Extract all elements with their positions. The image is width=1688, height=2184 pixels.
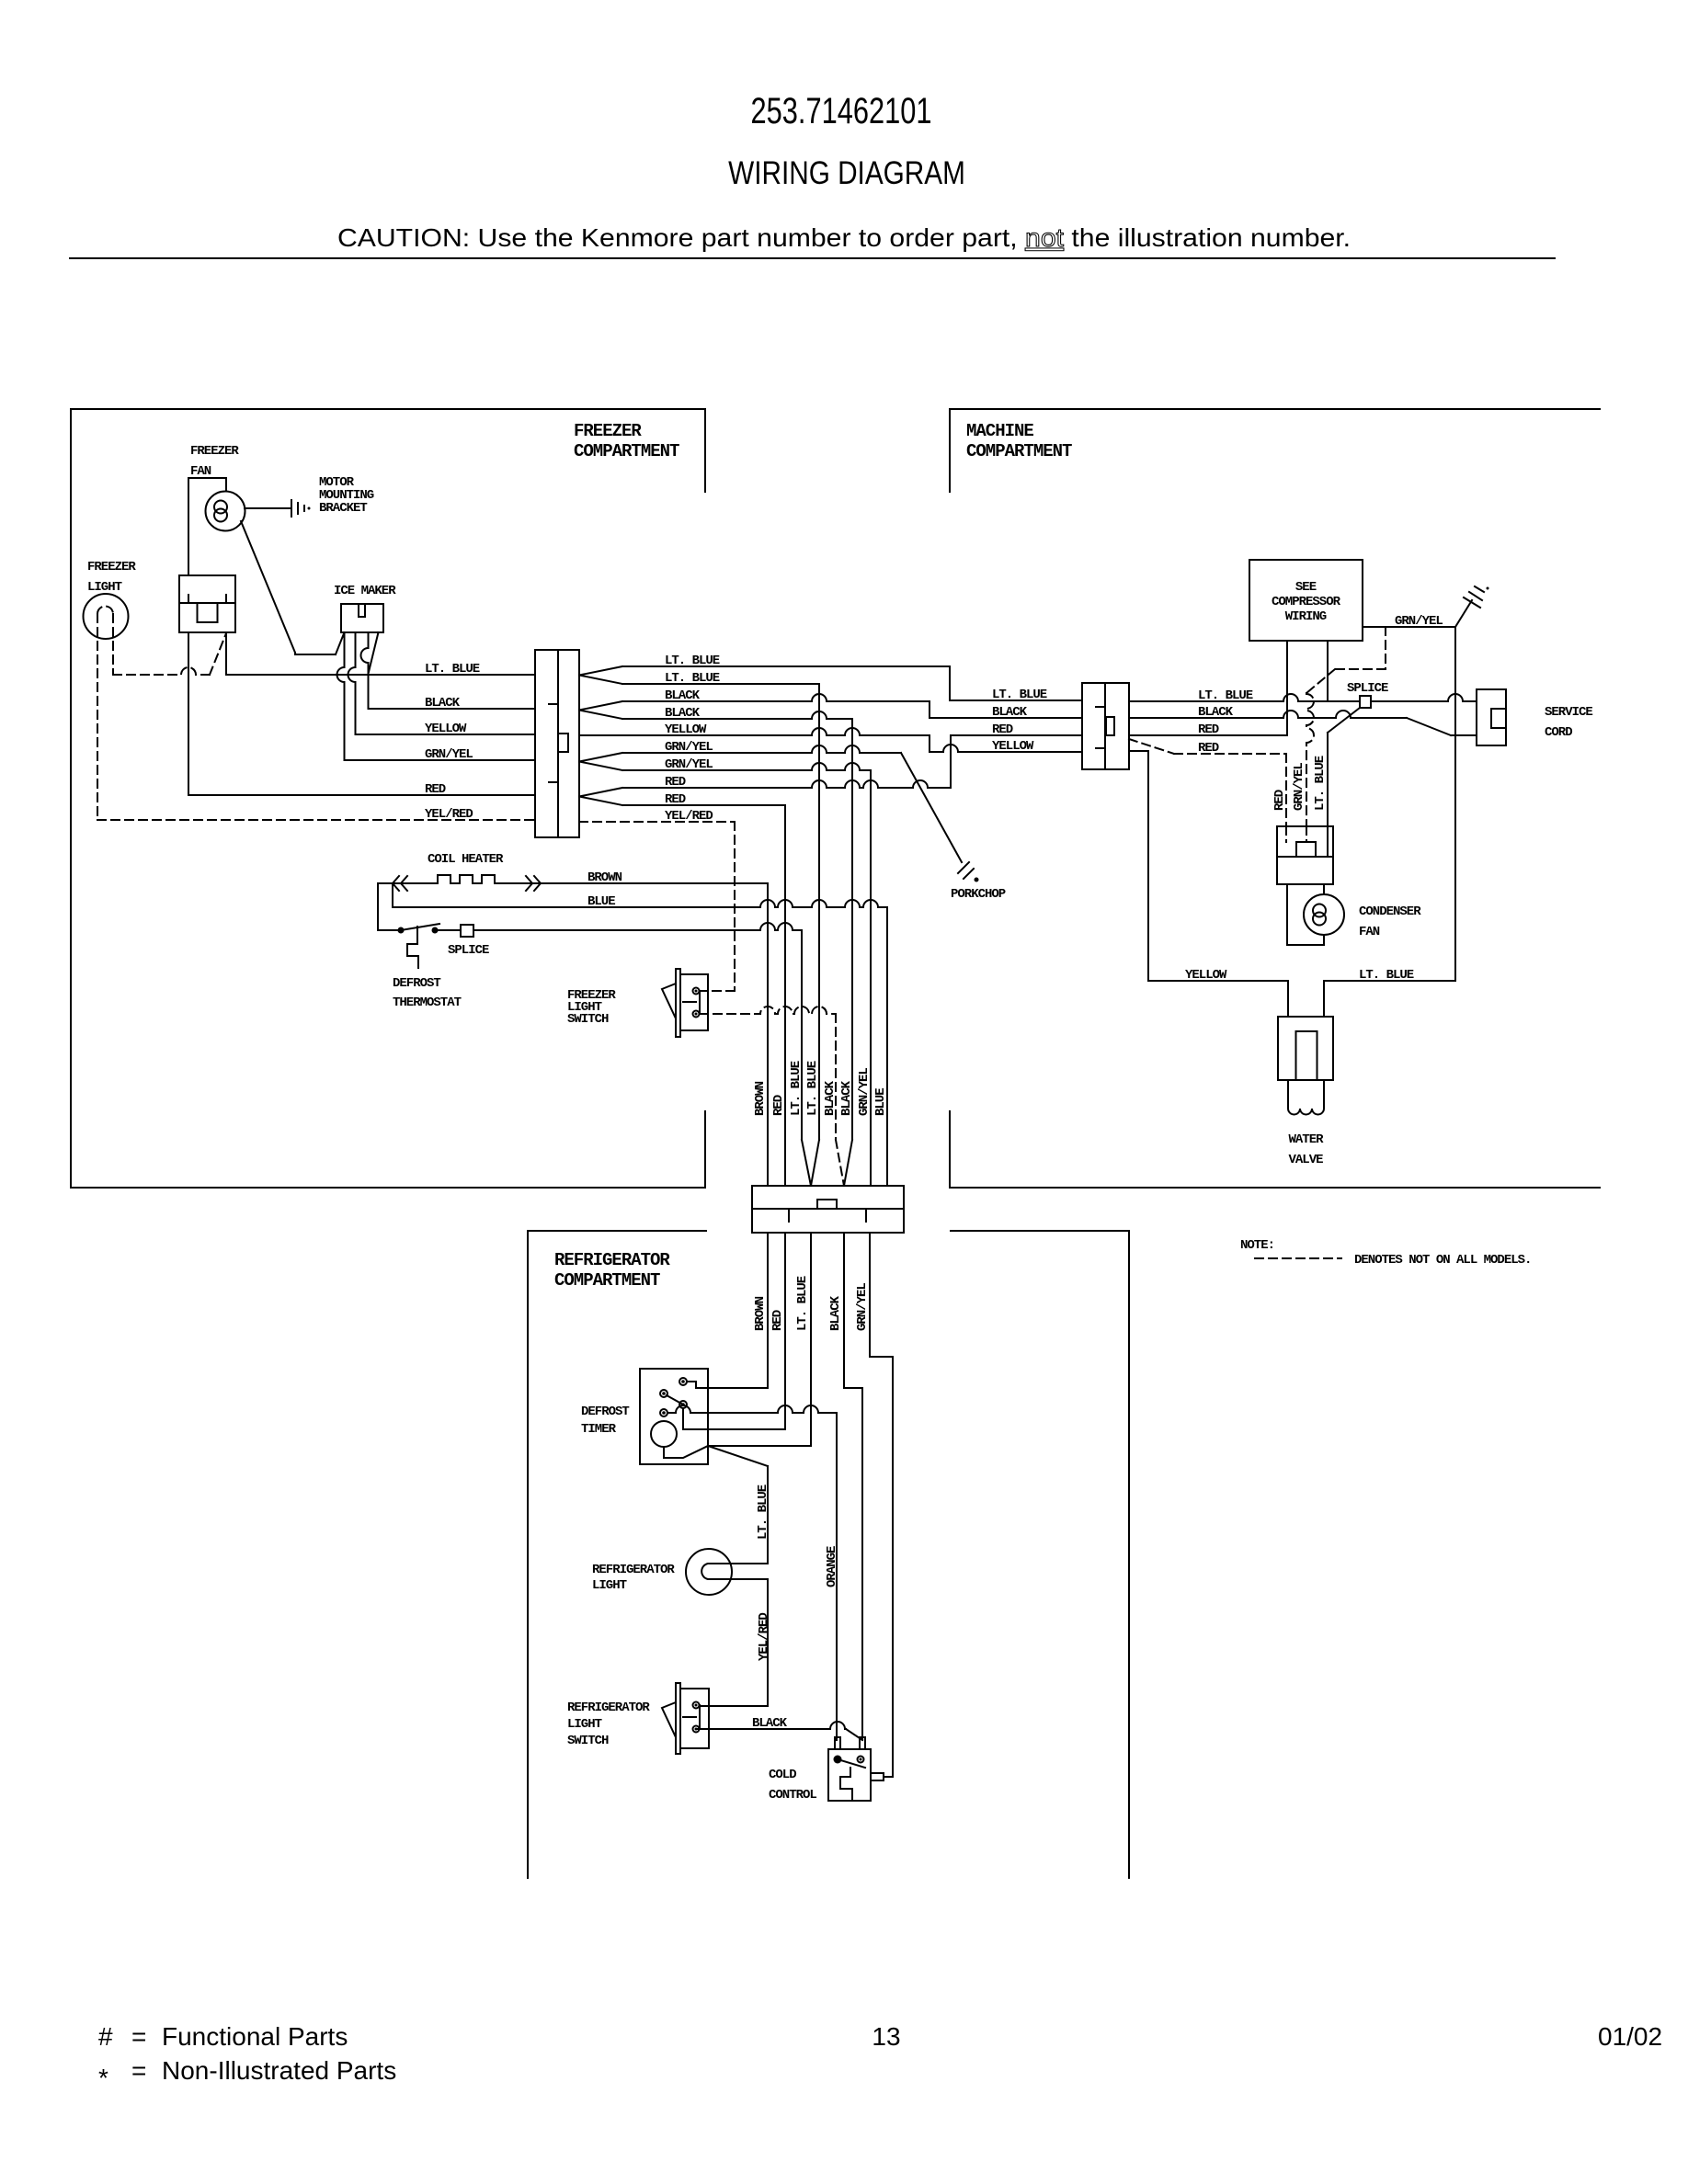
wire GRN/YEL run 1 to porkchop xyxy=(622,745,901,753)
relay box divider xyxy=(1277,856,1333,858)
svg-text:SPLICE: SPLICE xyxy=(1347,681,1388,696)
condenser fan left loop xyxy=(1286,884,1288,945)
porkchop ground symbol xyxy=(958,862,969,873)
svg-text:SPLICE: SPLICE xyxy=(448,943,489,958)
wire thermostat line xyxy=(378,929,397,931)
refrigerator light switch flag xyxy=(662,1702,676,1737)
water valve box xyxy=(1278,1017,1333,1080)
relay box notch xyxy=(1296,842,1316,857)
defrost thermostat contact dots xyxy=(398,927,405,934)
svg-text:FREEZER: FREEZER xyxy=(190,444,239,459)
freezer connector tick 1 xyxy=(549,703,558,705)
svg-text:=: = xyxy=(131,2056,146,2085)
svg-text:COMPARTMENT: COMPARTMENT xyxy=(574,441,679,461)
machine compartment border top xyxy=(950,409,1600,492)
svg-text:253.71462101: 253.71462101 xyxy=(751,90,932,131)
svg-text:GRN/YEL: GRN/YEL xyxy=(857,1068,872,1116)
svg-text:RED: RED xyxy=(992,722,1013,737)
wire fan bracket right to LT.BLUE xyxy=(225,632,227,675)
ice maker pin4 diagonal to LT.BLUE xyxy=(369,632,379,672)
wire YEL/RED to switch xyxy=(767,1579,769,1706)
ice maker notch slot xyxy=(359,604,365,617)
svg-text:GRN/YEL: GRN/YEL xyxy=(1292,763,1306,811)
wire RED run 1 xyxy=(622,780,951,788)
svg-text:NOTE:: NOTE: xyxy=(1240,1238,1274,1253)
svg-text:ORANGE: ORANGE xyxy=(825,1546,839,1587)
defrost timer box xyxy=(640,1369,708,1464)
svg-text:BLUE: BLUE xyxy=(873,1088,888,1116)
refrigerator light switch dots xyxy=(693,1702,700,1709)
svg-text:BLACK: BLACK xyxy=(665,706,701,721)
svg-text:#: # xyxy=(98,2022,113,2051)
svg-text:LIGHT: LIGHT xyxy=(567,1717,602,1732)
defrost timer terminal T4 xyxy=(660,1409,667,1416)
wire BLACK run 2 (down) xyxy=(622,711,852,719)
cold control switch arm xyxy=(838,1759,865,1768)
svg-text:GRN/YEL: GRN/YEL xyxy=(1395,614,1443,629)
condenser fan circle xyxy=(1304,894,1344,935)
defrost timer terminal T1 xyxy=(679,1378,687,1385)
svg-text:01/02: 01/02 xyxy=(1598,2022,1662,2051)
wire GRN/YEL dashed alternate xyxy=(1385,627,1386,669)
svg-text:YEL/RED: YEL/RED xyxy=(665,809,713,824)
svg-text:RED: RED xyxy=(1198,741,1219,756)
freezer connector divider xyxy=(557,650,559,837)
svg-text:BLACK: BLACK xyxy=(992,705,1028,720)
svg-text:LT. BLUE: LT. BLUE xyxy=(665,671,720,686)
machine connector box xyxy=(1082,683,1129,769)
wire GRN/YEL below connector xyxy=(869,1233,871,1357)
svg-text:BROWN: BROWN xyxy=(753,1081,768,1116)
svg-text:SWITCH: SWITCH xyxy=(567,1734,609,1748)
svg-text:LT. BLUE: LT. BLUE xyxy=(795,1276,810,1331)
svg-text:CORD: CORD xyxy=(1545,725,1572,740)
svg-text:CONTROL: CONTROL xyxy=(769,1788,816,1803)
wire freezer light switch lower dashed xyxy=(700,1007,836,1014)
wire T4 to ORANGE xyxy=(667,1405,837,1413)
svg-text:LIGHT: LIGHT xyxy=(592,1578,627,1593)
refrigerator connector box xyxy=(752,1186,904,1233)
cold control bellows xyxy=(840,1768,852,1799)
svg-text:YELLOW: YELLOW xyxy=(992,739,1034,754)
freezer fan feed loop xyxy=(188,478,226,575)
wire freezer light left dashed to YEL/RED xyxy=(97,614,98,820)
svg-text:LT. BLUE: LT. BLUE xyxy=(789,1061,804,1116)
svg-text:GRN/YEL: GRN/YEL xyxy=(665,740,713,755)
svg-text:BLACK: BLACK xyxy=(828,1295,843,1331)
svg-text:BLACK: BLACK xyxy=(425,696,461,711)
service cord notch xyxy=(1491,709,1506,728)
svg-text:BLACK: BLACK xyxy=(839,1080,854,1116)
service cord box xyxy=(1477,689,1506,745)
svg-text:SWITCH: SWITCH xyxy=(567,1012,609,1027)
svg-text:REFRIGERATOR: REFRIGERATOR xyxy=(567,1701,650,1715)
water valve leads below xyxy=(1287,1080,1289,1103)
svg-text:FAN: FAN xyxy=(1359,925,1380,939)
wire freezer light dashed to fan bracket xyxy=(113,667,210,675)
svg-text:Non-Illustrated Parts: Non-Illustrated Parts xyxy=(162,2056,396,2085)
svg-text:BLACK: BLACK xyxy=(665,688,701,703)
svg-text:13: 13 xyxy=(872,2022,900,2051)
svg-text:CONDENSER: CONDENSER xyxy=(1359,904,1421,919)
svg-text:CAUTION: Use the Kenmore part: CAUTION: Use the Kenmore part number to … xyxy=(337,224,1351,253)
fanout BLACK pair xyxy=(579,701,622,719)
wire RED run 2 (down) xyxy=(622,804,785,806)
taper LT.BLUE pair xyxy=(802,1140,819,1186)
refrigerator connector notch xyxy=(817,1200,837,1209)
wire GRN/YEL freezer-left xyxy=(345,759,536,761)
svg-text:GRN/YEL: GRN/YEL xyxy=(425,747,473,762)
chassis ground diagonal xyxy=(1455,600,1472,627)
condenser fan leads xyxy=(1323,884,1325,894)
note dashes xyxy=(1255,1257,1341,1259)
freezer connector box xyxy=(535,650,579,837)
machine connector tick 2 xyxy=(1096,747,1105,749)
refrigerator connector pin ticks xyxy=(788,1209,790,1222)
svg-text:*: * xyxy=(98,2064,108,2092)
wire fan to ice maker diagonal xyxy=(241,521,295,653)
svg-text:BLACK: BLACK xyxy=(752,1716,788,1731)
wire BLACK freezer-left xyxy=(369,708,536,710)
freezer connector notch rect xyxy=(558,734,568,752)
splice square machine xyxy=(1360,696,1371,708)
svg-text:LT. BLUE: LT. BLUE xyxy=(992,688,1047,702)
freezer fan bracket connector box xyxy=(179,575,235,632)
svg-text:TIMER: TIMER xyxy=(581,1422,617,1437)
svg-text:DENOTES NOT ON ALL MODELS.: DENOTES NOT ON ALL MODELS. xyxy=(1354,1253,1531,1268)
freezer fan bracket divider xyxy=(179,602,235,604)
svg-text:MACHINE: MACHINE xyxy=(966,421,1033,441)
svg-text:COLD: COLD xyxy=(769,1768,796,1782)
ice maker pin3 wire to BLACK xyxy=(361,632,369,709)
wire YELLOW run xyxy=(579,728,930,735)
svg-text:BLUE: BLUE xyxy=(587,894,615,909)
wire BLUE from heater xyxy=(392,883,393,907)
svg-text:LT. BLUE: LT. BLUE xyxy=(756,1484,770,1540)
wire YEL/RED dashed run xyxy=(579,821,735,823)
wire RED to compressor xyxy=(1129,734,1287,736)
cold control dots xyxy=(834,1756,842,1764)
ice maker pin2 wire to YELLOW xyxy=(348,632,356,734)
svg-text:GRN/YEL: GRN/YEL xyxy=(665,757,713,772)
compressor right lead xyxy=(1327,641,1329,701)
cold control box xyxy=(828,1749,871,1801)
coil heater element xyxy=(378,875,542,883)
wire LT. BLUE run 2 (down) xyxy=(622,683,819,685)
svg-text:FAN: FAN xyxy=(190,464,211,479)
svg-text:WATER: WATER xyxy=(1288,1132,1324,1147)
see compressor wiring box xyxy=(1249,560,1363,641)
svg-text:LT. BLUE: LT. BLUE xyxy=(425,662,480,677)
svg-text:RED: RED xyxy=(770,1310,785,1331)
freezer compartment bottom border xyxy=(71,1111,705,1188)
svg-text:THERMOSTAT: THERMOSTAT xyxy=(393,995,462,1010)
machine connector divider xyxy=(1104,683,1106,769)
svg-text:=: = xyxy=(131,2022,146,2051)
motor ground wire xyxy=(245,507,291,509)
svg-text:LT. BLUE: LT. BLUE xyxy=(665,654,720,668)
svg-text:WIRING: WIRING xyxy=(1285,609,1327,624)
freezer connector tick 2 xyxy=(549,781,558,783)
refrigerator compartment border right xyxy=(951,1231,1129,1878)
svg-text:YEL/RED: YEL/RED xyxy=(757,1613,771,1661)
refrigerator light filament xyxy=(701,1564,768,1579)
svg-text:ICE MAKER: ICE MAKER xyxy=(334,584,396,598)
refrigerator compartment border left xyxy=(528,1231,706,1878)
relay leads inside xyxy=(1285,826,1287,842)
svg-text:WIRING DIAGRAM: WIRING DIAGRAM xyxy=(728,155,965,191)
wire LT. BLUE run 1 xyxy=(622,665,950,667)
wire BROWN below connector xyxy=(767,1233,769,1388)
wire LT. BLUE to water valve xyxy=(1324,980,1455,982)
refrigerator light switch blade xyxy=(676,1683,680,1754)
machine compartment border bottom xyxy=(950,1111,1600,1188)
svg-text:BRACKET: BRACKET xyxy=(319,501,367,516)
svg-text:DEFROST: DEFROST xyxy=(393,976,440,991)
wire RED dashed to relay xyxy=(1129,739,1174,754)
svg-text:COMPARTMENT: COMPARTMENT xyxy=(966,441,1072,461)
freezer fan motor M1 circle xyxy=(206,492,245,531)
compressor left lead xyxy=(1286,641,1288,735)
water valve inner channel xyxy=(1296,1031,1317,1080)
wire LT. BLUE to splice and service cord xyxy=(1129,694,1360,701)
svg-text:COMPRESSOR: COMPRESSOR xyxy=(1272,595,1341,609)
svg-text:FREEZER: FREEZER xyxy=(574,421,642,441)
freezer light switch dots xyxy=(693,988,700,995)
cold control stub xyxy=(871,1773,884,1780)
svg-text:LT. BLUE: LT. BLUE xyxy=(1198,688,1253,703)
wire node at x321 xyxy=(295,653,336,654)
defrost thermostat switch arm xyxy=(401,924,439,930)
svg-text:Functional Parts: Functional Parts xyxy=(162,2022,348,2051)
wire thermostat to splice xyxy=(438,929,461,931)
freezer fan bracket notch xyxy=(198,603,218,622)
wire BLACK switch to cold control xyxy=(696,1722,846,1729)
wire YEL/RED freezer-left dashed xyxy=(97,819,535,821)
wire BLACK below connector xyxy=(843,1233,845,1388)
wire GRN/YEL run 2 (down) xyxy=(622,763,871,770)
wire LT. BLUE from splice xyxy=(473,923,802,930)
wire GRN/YEL service vertical xyxy=(1454,627,1456,981)
water valve coil xyxy=(1288,1103,1324,1115)
refrigerator connector divider xyxy=(752,1208,904,1210)
svg-text:RED: RED xyxy=(425,782,446,797)
svg-text:FREEZER: FREEZER xyxy=(87,560,136,574)
wire freezer light right dashed xyxy=(112,614,114,675)
coil heater chevrons left xyxy=(393,876,407,891)
svg-text:REFRIGERATOR: REFRIGERATOR xyxy=(592,1563,675,1577)
wire LT.BLUE splice to relay xyxy=(1328,708,1360,733)
wire BLACK run 1 xyxy=(622,694,930,701)
cold control pin right xyxy=(860,1737,865,1749)
machine connector notch xyxy=(1106,717,1114,735)
svg-text:LT. BLUE: LT. BLUE xyxy=(1313,756,1328,811)
freezer fan bracket pin ticks xyxy=(188,595,189,603)
svg-text:YEL/RED: YEL/RED xyxy=(425,807,473,822)
refrigerator light switch contact xyxy=(683,1716,696,1718)
wire icemaker pin1 diagonal xyxy=(336,632,345,654)
taper BLACK pair dashed-solid xyxy=(836,1140,844,1186)
ice maker pin1 wire to GRN/YEL xyxy=(337,632,345,760)
wire BROWN from heater xyxy=(542,882,768,884)
defrost timer switch arm xyxy=(667,1395,683,1405)
svg-text:REFRIGERATOR: REFRIGERATOR xyxy=(554,1250,670,1270)
defrost timer terminal T3 xyxy=(679,1401,687,1408)
freezer light switch contact xyxy=(683,1001,696,1003)
fanout GRN/YEL pair xyxy=(579,753,622,770)
svg-text:BLACK: BLACK xyxy=(823,1080,838,1116)
svg-text:LT. BLUE: LT. BLUE xyxy=(1359,968,1414,983)
svg-text:RED: RED xyxy=(1198,722,1219,737)
svg-text:RED: RED xyxy=(665,775,686,790)
svg-text:SERVICE: SERVICE xyxy=(1545,705,1592,720)
freezer light switch box xyxy=(680,974,708,1030)
freezer compartment border xyxy=(71,409,705,1188)
wire LT.BLUE light junction xyxy=(708,1446,768,1466)
freezer light switch blade xyxy=(676,969,680,1037)
freezer light switch flag xyxy=(662,984,676,1018)
defrost timer motor circle xyxy=(651,1421,677,1447)
wire YELLOW freezer-left xyxy=(356,734,536,735)
refrigerator light circle xyxy=(686,1549,732,1595)
wire BLACK to service cord xyxy=(1129,711,1407,718)
svg-text:BLACK: BLACK xyxy=(1198,705,1234,720)
svg-text:LIGHT: LIGHT xyxy=(87,580,122,595)
svg-text:VALVE: VALVE xyxy=(1288,1153,1323,1167)
svg-text:RED: RED xyxy=(665,792,686,807)
freezer light circle xyxy=(84,594,129,639)
svg-text:YELLOW: YELLOW xyxy=(1185,968,1227,983)
defrost thermostat stem xyxy=(407,927,418,968)
defrost timer terminal T2 xyxy=(660,1390,667,1397)
motor ground symbol xyxy=(291,500,292,517)
wire RED below connector xyxy=(784,1233,786,1429)
svg-text:SEE: SEE xyxy=(1295,580,1317,595)
wire GRN/YEL to ground xyxy=(1363,626,1455,628)
wire stub to GRN/YEL xyxy=(884,1776,893,1778)
freezer fan motor coil xyxy=(214,501,227,514)
svg-text:LT. BLUE: LT. BLUE xyxy=(805,1061,820,1116)
svg-text:COMPARTMENT: COMPARTMENT xyxy=(554,1270,660,1291)
cold control pin left xyxy=(835,1737,840,1749)
coil heater left riser xyxy=(377,883,379,930)
svg-text:RED: RED xyxy=(1272,790,1287,811)
chassis ground symbol xyxy=(1464,597,1480,608)
svg-text:YELLOW: YELLOW xyxy=(665,722,707,737)
svg-text:GRN/YEL: GRN/YEL xyxy=(855,1283,870,1331)
relay box xyxy=(1277,826,1333,884)
ice maker box xyxy=(341,604,383,632)
machine connector tick 1 xyxy=(1096,706,1105,708)
svg-text:PORKCHOP: PORKCHOP xyxy=(951,887,1006,902)
fanout LT. BLUE pair xyxy=(579,666,622,684)
svg-text:RED: RED xyxy=(771,1095,786,1116)
splice square freezer xyxy=(461,925,473,937)
defrost timer motor stem xyxy=(664,1446,708,1458)
wire YELLOW to water valve xyxy=(1129,750,1148,752)
wire LT. BLUE below connector xyxy=(810,1233,812,1446)
svg-text:BROWN: BROWN xyxy=(753,1296,768,1331)
header horizontal rule xyxy=(70,257,1555,259)
condenser fan coil xyxy=(1313,904,1326,917)
refrigerator light switch box xyxy=(680,1689,709,1748)
svg-text:BROWN: BROWN xyxy=(587,870,622,885)
wire LT. BLUE freezer-left xyxy=(226,674,535,676)
svg-text:YELLOW: YELLOW xyxy=(425,722,467,736)
freezer light filament dashed xyxy=(97,607,113,615)
wire fan bracket left to RED xyxy=(188,632,535,795)
fanout RED pair xyxy=(579,788,622,805)
svg-text:DEFROST: DEFROST xyxy=(581,1405,629,1419)
svg-text:COIL HEATER: COIL HEATER xyxy=(428,852,504,867)
